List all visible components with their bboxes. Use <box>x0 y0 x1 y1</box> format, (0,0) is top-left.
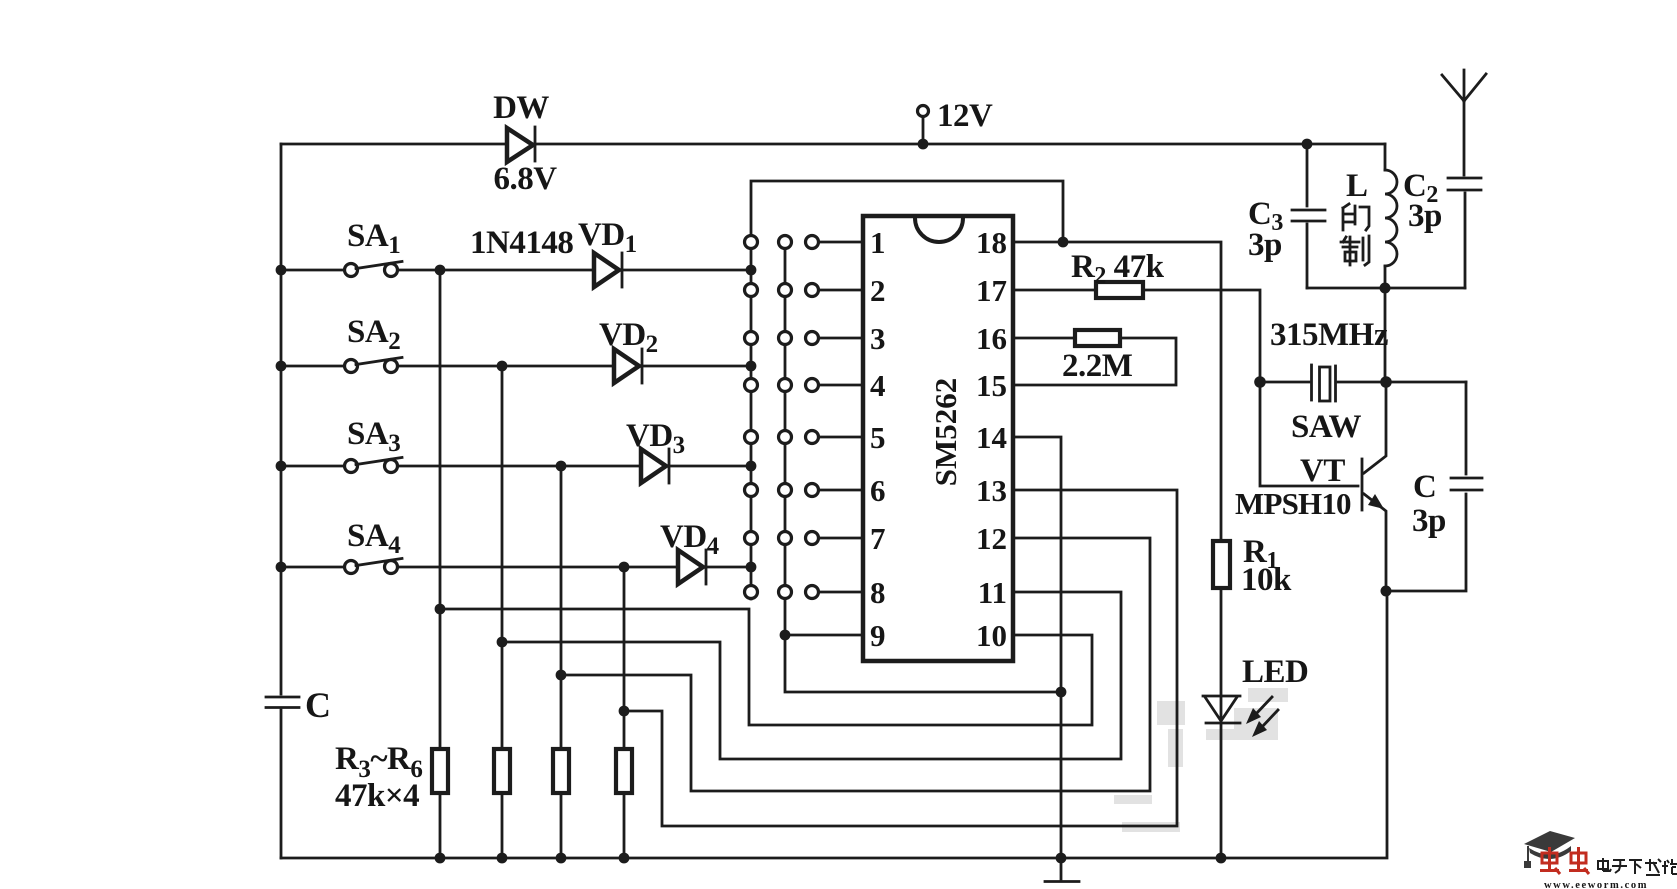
svg-text:MPSH10: MPSH10 <box>1235 486 1351 521</box>
svg-text:www.eeworm.com: www.eeworm.com <box>1544 880 1648 889</box>
svg-text:18: 18 <box>976 225 1007 260</box>
svg-text:SAW: SAW <box>1291 409 1362 445</box>
svg-text:3: 3 <box>870 321 886 356</box>
svg-text:LED: LED <box>1242 654 1308 690</box>
svg-text:6.8V: 6.8V <box>493 161 557 197</box>
svg-text:VT: VT <box>1300 453 1345 489</box>
svg-text:2.2M: 2.2M <box>1062 348 1133 384</box>
svg-text:12: 12 <box>976 521 1007 556</box>
svg-text:6: 6 <box>870 473 886 508</box>
svg-text:315MHz: 315MHz <box>1270 317 1388 353</box>
svg-text:7: 7 <box>870 521 886 556</box>
svg-text:16: 16 <box>976 321 1007 356</box>
svg-text:1N4148: 1N4148 <box>470 225 573 261</box>
svg-text:13: 13 <box>976 473 1007 508</box>
svg-text:R2 47k: R2 47k <box>1071 249 1165 289</box>
svg-text:12V: 12V <box>937 98 993 134</box>
svg-text:DW: DW <box>493 90 549 126</box>
svg-text:15: 15 <box>976 368 1007 403</box>
svg-text:L: L <box>1346 168 1368 204</box>
svg-text:4: 4 <box>870 368 886 403</box>
svg-text:8: 8 <box>870 575 886 610</box>
svg-text:2: 2 <box>870 273 886 308</box>
svg-text:C: C <box>305 685 331 725</box>
svg-text:17: 17 <box>976 273 1007 308</box>
svg-text:10k: 10k <box>1241 562 1292 598</box>
svg-text:5: 5 <box>870 420 886 455</box>
svg-text:47k×4: 47k×4 <box>335 778 419 814</box>
svg-text:SM5262: SM5262 <box>928 378 963 487</box>
svg-text:10: 10 <box>976 618 1007 653</box>
svg-text:3p: 3p <box>1412 503 1446 539</box>
svg-text:9: 9 <box>870 618 886 653</box>
svg-text:3p: 3p <box>1248 227 1282 263</box>
svg-text:C: C <box>1413 469 1436 505</box>
svg-text:R3~R6: R3~R6 <box>335 741 422 783</box>
svg-text:11: 11 <box>978 575 1007 610</box>
svg-text:3p: 3p <box>1408 198 1442 234</box>
svg-text:14: 14 <box>976 420 1007 455</box>
svg-text:1: 1 <box>870 225 886 260</box>
